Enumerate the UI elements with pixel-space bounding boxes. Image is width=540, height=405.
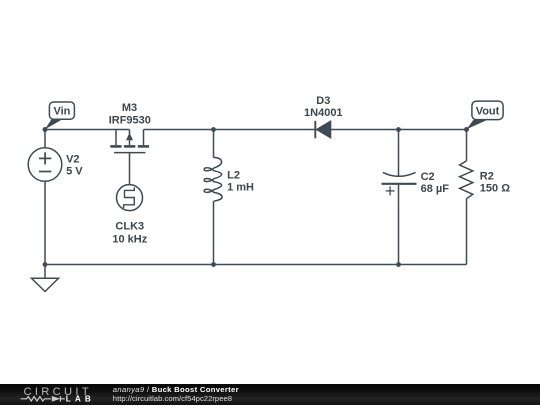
svg-text:5 V: 5 V (66, 166, 83, 178)
svg-text:IRF9530: IRF9530 (109, 115, 151, 127)
svg-text:Vout: Vout (476, 105, 500, 117)
svg-text:10 kHz: 10 kHz (112, 234, 147, 246)
svg-text:150 Ω: 150 Ω (480, 183, 510, 195)
svg-text:D3: D3 (316, 95, 330, 107)
svg-text:M3: M3 (122, 102, 137, 114)
svg-text:LAB: LAB (66, 395, 95, 404)
svg-text:1N4001: 1N4001 (304, 107, 343, 119)
svg-text:Vin: Vin (53, 105, 70, 117)
svg-text:C2: C2 (421, 171, 435, 183)
svg-text:V2: V2 (66, 153, 79, 165)
svg-text:68 µF: 68 µF (421, 183, 450, 195)
svg-text:1 mH: 1 mH (227, 182, 254, 194)
svg-text:L2: L2 (227, 169, 240, 181)
svg-text:CLK3: CLK3 (115, 220, 144, 232)
svg-text:R2: R2 (480, 170, 494, 182)
